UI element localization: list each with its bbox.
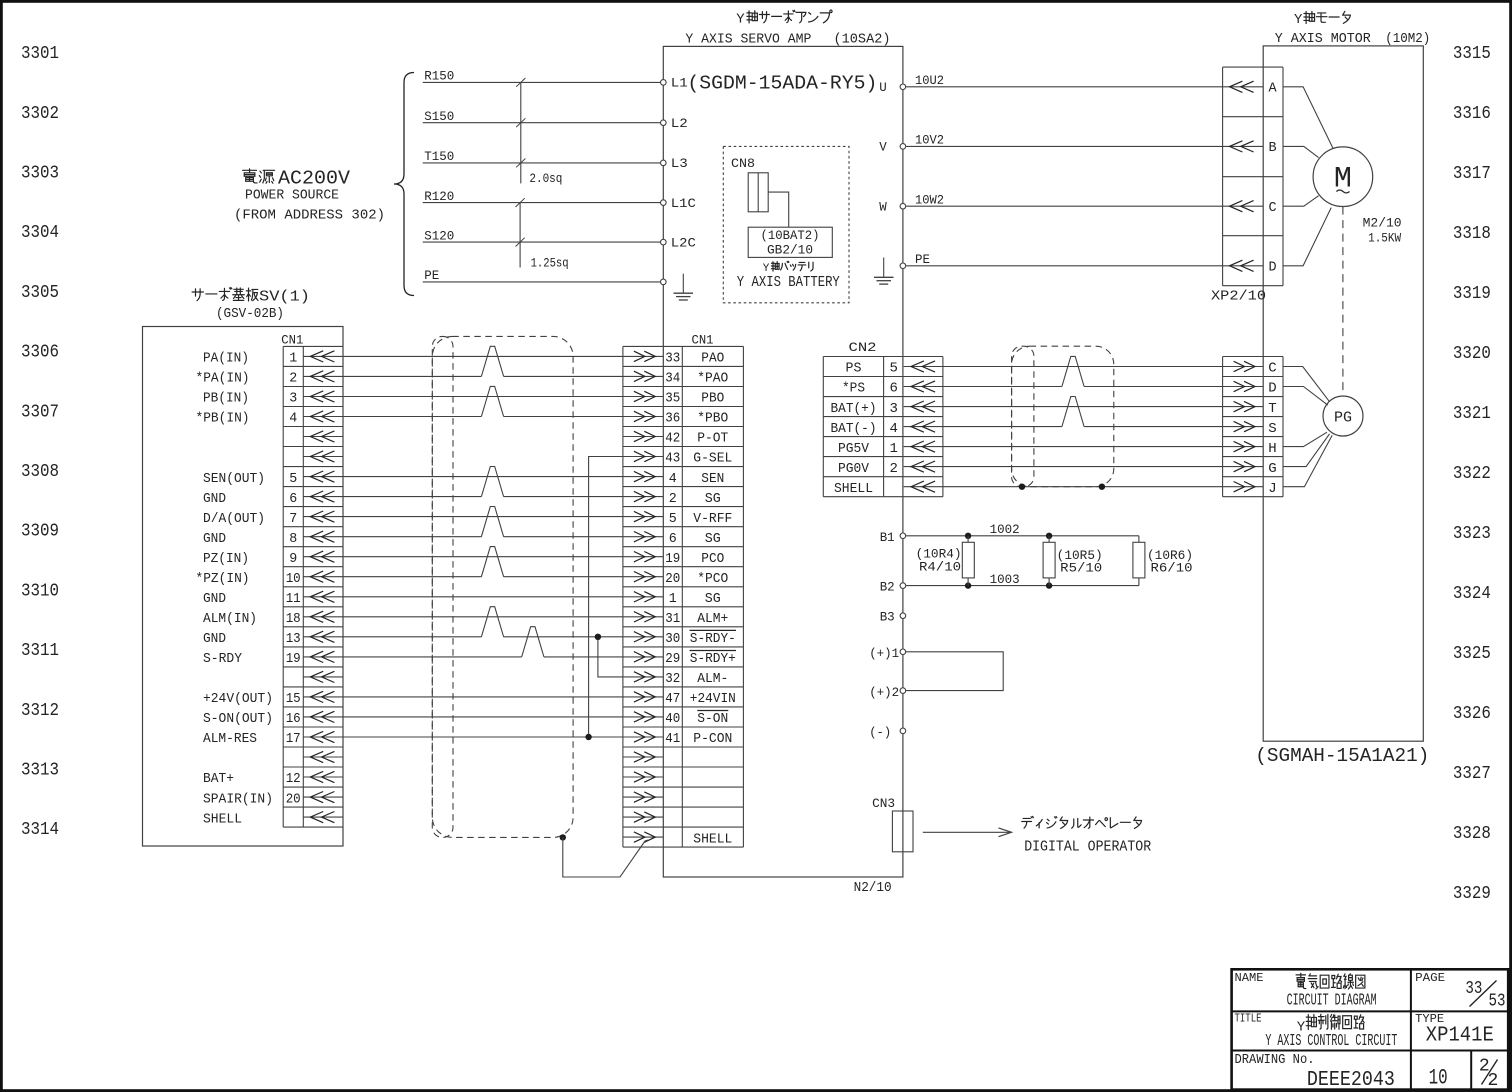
SV(1) CN1 pin 17 ALM-RES <box>203 731 343 747</box>
svg-text:9: 9 <box>289 551 297 567</box>
svg-text:SHELL: SHELL <box>834 481 873 497</box>
svg-text:30: 30 <box>665 631 680 647</box>
svg-text:20: 20 <box>286 791 301 807</box>
XP2/10 pin B <box>1223 141 1277 156</box>
motor M=10M2 outline <box>1263 46 1423 741</box>
svg-text:Y: Y <box>736 12 745 28</box>
terminal (+)1 <box>869 646 906 661</box>
svg-text:S150: S150 <box>424 110 454 124</box>
wire link (+)1 to (+)2 <box>906 652 1003 691</box>
svg-text:Y AXIS CONTROL CIRCUIT: Y AXIS CONTROL CIRCUIT <box>1265 1031 1397 1050</box>
label DIGITAL OPERATOR <box>1022 816 1152 855</box>
wire PE to terminal ground <box>423 269 660 283</box>
wire SV(1) row 13 to amp CN1 <box>343 596 623 598</box>
connector CN1 of SV(1) board <box>281 332 343 827</box>
wire D to motor <box>1283 208 1331 266</box>
svg-text:1.25sq: 1.25sq <box>531 256 569 270</box>
svg-text:PG0V: PG0V <box>838 461 870 477</box>
wire G to PG <box>1283 434 1330 467</box>
title block PAGE 33/53 <box>1415 971 1505 1011</box>
svg-text:2: 2 <box>289 371 297 387</box>
svg-text:C: C <box>1268 361 1276 377</box>
svg-text:P-OT: P-OT <box>697 431 728 447</box>
svg-text:(10M2): (10M2) <box>1385 31 1430 47</box>
svg-text:19: 19 <box>665 551 680 567</box>
svg-text:D: D <box>1268 381 1276 397</box>
svg-text:19: 19 <box>286 651 301 667</box>
svg-text:3307: 3307 <box>21 402 59 422</box>
wire CN2 PG0V to encoder G <box>943 466 1223 468</box>
wire SV(1) row 19 to amp CN1 <box>343 716 623 718</box>
svg-text:P-CON: P-CON <box>693 731 732 747</box>
label Y-axis servo amp (japanese) <box>736 10 832 28</box>
svg-text:31: 31 <box>665 611 680 627</box>
svg-text:3316: 3316 <box>1453 104 1491 124</box>
svg-text:32: 32 <box>665 671 680 687</box>
encoder connector pin J <box>1223 481 1277 497</box>
amp CN1 pin 42 P-OT <box>623 431 728 447</box>
svg-text:47: 47 <box>665 691 680 707</box>
svg-text:4: 4 <box>889 421 897 437</box>
svg-text:PE: PE <box>915 253 930 267</box>
svg-text:SHELL: SHELL <box>693 831 732 847</box>
svg-text:*PB(IN): *PB(IN) <box>196 411 250 427</box>
svg-text:1003: 1003 <box>990 572 1020 587</box>
terminal L2C of servo amp <box>661 239 667 245</box>
SV(1) CN1 pin (nc) spare <box>303 751 343 762</box>
amp CN1 pin 36 *PBO <box>623 411 728 427</box>
svg-text:2: 2 <box>889 461 897 477</box>
wire gauge mark 1.25sq <box>516 198 569 270</box>
svg-text:+24V(OUT): +24V(OUT) <box>203 691 273 707</box>
amp CN1 pin 2 SG <box>623 491 721 507</box>
svg-text:41: 41 <box>665 731 680 747</box>
SV(1) CN1 pin 10 *PZ(IN) <box>196 571 344 587</box>
svg-text:SG: SG <box>705 591 721 607</box>
svg-text:+24VIN: +24VIN <box>690 691 736 707</box>
svg-text:3321: 3321 <box>1453 404 1491 424</box>
terminal L3 of servo amp <box>661 160 667 166</box>
svg-text:S: S <box>1268 421 1276 437</box>
wire PE from PE to motor connector <box>906 253 1223 267</box>
svg-text:T150: T150 <box>424 150 454 164</box>
svg-text:AC200V: AC200V <box>278 168 350 190</box>
SV(1) CN1 pin 20 SPAIR(IN) <box>203 791 343 807</box>
SV(1) CN1 pin 8 GND <box>203 531 343 547</box>
net G-SEL to P-CON link <box>585 457 623 741</box>
svg-text:BAT+: BAT+ <box>203 771 234 787</box>
svg-text:3320: 3320 <box>1453 344 1491 364</box>
terminal (-) <box>869 725 906 740</box>
amp CN2 pin 3 BAT(+) <box>831 401 943 417</box>
connector CN8 (dotted enclosure) <box>723 146 849 302</box>
svg-text:PB(IN): PB(IN) <box>203 391 249 407</box>
svg-text:PG5V: PG5V <box>838 441 870 457</box>
amp CN1 pin 20 *PCO <box>623 571 728 587</box>
svg-text:3313: 3313 <box>21 761 59 781</box>
wire CN2 BAT(+) to encoder T <box>943 406 1223 408</box>
svg-text:L3: L3 <box>671 157 688 171</box>
svg-text:3309: 3309 <box>21 522 59 542</box>
svg-text:5: 5 <box>289 471 297 487</box>
svg-text:3312: 3312 <box>21 701 59 721</box>
svg-text:PG: PG <box>1334 410 1352 427</box>
SV(1) CN1 pin 18 ALM(IN) <box>203 611 343 627</box>
svg-text:R4/10: R4/10 <box>919 561 961 575</box>
amp CN1 pin 5 V-RFF <box>623 511 732 527</box>
wire CN2 SHELL to encoder J <box>943 486 1223 488</box>
label servo board SV(1) <box>192 288 310 322</box>
svg-text:3303: 3303 <box>21 164 59 184</box>
svg-text:*PBO: *PBO <box>697 411 728 427</box>
svg-text:3: 3 <box>289 391 297 407</box>
svg-text:Y: Y <box>1294 12 1303 28</box>
encoder connector pin D <box>1223 381 1277 397</box>
connector XP2/10 on motor <box>1211 67 1283 305</box>
svg-text:CIRCUIT DIAGRAM: CIRCUIT DIAGRAM <box>1287 990 1377 1009</box>
svg-text:G-SEL: G-SEL <box>693 451 732 467</box>
SV(1) CN1 pin 11 GND <box>203 591 343 607</box>
svg-text:3325: 3325 <box>1453 644 1491 664</box>
wire 10V2 from V to motor connector <box>906 134 1223 148</box>
svg-text:B2: B2 <box>880 580 895 595</box>
svg-text:(10BAT2): (10BAT2) <box>761 229 820 243</box>
ground symbol at servo amp PE input <box>682 274 684 294</box>
SV(1) CN1 pin (nc) spare <box>303 671 343 682</box>
svg-text:*PS: *PS <box>842 381 865 397</box>
svg-text:S-RDY: S-RDY <box>203 651 243 667</box>
svg-text:ALM(IN): ALM(IN) <box>203 611 257 627</box>
svg-text:A: A <box>1268 82 1277 97</box>
wire J to PG <box>1283 435 1332 487</box>
XP2/10 pin A <box>1223 81 1278 96</box>
terminal V of servo amp <box>879 141 905 155</box>
svg-text:3302: 3302 <box>21 104 59 124</box>
svg-text:3328: 3328 <box>1453 824 1491 844</box>
svg-text:1: 1 <box>669 591 677 607</box>
svg-text:M2/10: M2/10 <box>1363 217 1402 231</box>
svg-text:B: B <box>1268 141 1276 156</box>
svg-text:4: 4 <box>669 471 677 487</box>
amp CN1 pin 34 *PAO <box>623 371 728 387</box>
encoder connector pin H <box>1223 441 1277 457</box>
svg-text:Y AXIS MOTOR: Y AXIS MOTOR <box>1275 31 1372 47</box>
svg-text:(+)2: (+)2 <box>869 685 899 700</box>
svg-text:PCO: PCO <box>701 551 724 567</box>
SV(1) CN1 pin 2 *PA(IN) <box>196 371 344 387</box>
junction encoder shield right <box>1099 484 1105 490</box>
svg-text:3301: 3301 <box>21 44 59 64</box>
terminal PE of servo amp <box>900 263 906 269</box>
svg-text:3306: 3306 <box>21 343 59 363</box>
battery GB2/10 (10BAT2) <box>748 227 832 257</box>
svg-text:3315: 3315 <box>1453 44 1491 64</box>
svg-text:42: 42 <box>665 431 680 447</box>
svg-text:NAME: NAME <box>1235 971 1264 985</box>
svg-text:S-ON: S-ON <box>697 711 728 727</box>
grid line numbers 3301-3314 (left margin) <box>21 44 59 840</box>
svg-text:V: V <box>879 141 887 155</box>
amp CN1 pin (nc) spare <box>623 752 663 762</box>
terminal L1C of servo amp <box>661 200 667 206</box>
svg-text:11: 11 <box>286 591 301 607</box>
svg-text:3319: 3319 <box>1453 284 1491 304</box>
wire SV(1) row 14 to amp CN1 <box>343 616 623 618</box>
wire 10W2 from W to motor connector <box>906 193 1223 207</box>
wire C to PG <box>1283 367 1330 402</box>
wire SV(1) row 10 to amp CN1 <box>343 536 481 538</box>
resistor R5/10 (10R5) <box>1043 536 1103 586</box>
svg-text:XP141E: XP141E <box>1426 1025 1494 1048</box>
encoder connector pin C <box>1223 361 1277 377</box>
wire S150 to terminal L2 <box>423 110 660 124</box>
resistor R6/10 (10R6) <box>1133 536 1193 586</box>
svg-text:3323: 3323 <box>1453 524 1491 544</box>
amp CN1 pin 19 PCO <box>623 551 724 567</box>
CN8 plug symbol <box>748 173 768 212</box>
wire CN2 PS to encoder C <box>943 366 1223 368</box>
svg-text:20: 20 <box>665 571 680 587</box>
junction B1-R4 <box>965 533 971 539</box>
title block TITLE: Y AXIS CONTROL CIRCUIT <box>1235 1012 1398 1050</box>
svg-text:*PA(IN): *PA(IN) <box>196 371 250 387</box>
svg-text:*PAO: *PAO <box>697 371 728 387</box>
svg-text:2.0sq: 2.0sq <box>529 172 562 186</box>
wire SV(1) row 7 to amp CN1 <box>343 476 623 478</box>
amp CN1 pin 30 S-RDY- <box>623 630 736 647</box>
svg-text:POWER SOURCE: POWER SOURCE <box>245 187 339 203</box>
svg-text:SG: SG <box>705 531 721 547</box>
svg-text:3324: 3324 <box>1453 584 1491 604</box>
SV(1) CN1 pin 9 PZ(IN) <box>203 551 343 567</box>
grid line numbers 3315-3329 (right margin) <box>1453 44 1491 904</box>
wire SV(1) row 1 to amp CN1 <box>343 355 623 357</box>
terminal E of servo amp <box>661 279 667 285</box>
svg-text:PA(IN): PA(IN) <box>203 351 249 367</box>
svg-text:3318: 3318 <box>1453 224 1491 244</box>
svg-text:(10R4): (10R4) <box>916 548 962 562</box>
XP2/10 pin D <box>1223 260 1277 275</box>
svg-text:G: G <box>1268 461 1276 477</box>
svg-text:1: 1 <box>289 351 297 367</box>
SV(1) CN1 pin (nc) spare <box>303 431 343 442</box>
amp CN1 pin (nc) spare <box>623 812 663 822</box>
SV(1) CN1 pin (nc) SHELL <box>203 811 343 827</box>
wire SV(1) row 18 to amp CN1 <box>343 696 623 698</box>
svg-text:BAT(+): BAT(+) <box>831 401 877 417</box>
wire S120 to terminal L2C <box>423 229 660 243</box>
svg-text:U: U <box>879 81 887 95</box>
svg-text:3310: 3310 <box>21 581 59 601</box>
svg-text:(SGDM-15ADA-RY5): (SGDM-15ADA-RY5) <box>687 72 877 94</box>
amp CN1 pin (nc) spare <box>623 792 663 802</box>
terminal L2 of servo amp <box>661 120 667 126</box>
svg-text:3311: 3311 <box>21 641 59 661</box>
servo amplifier U=10SA2 outline <box>663 46 903 877</box>
svg-text:6: 6 <box>669 531 677 547</box>
svg-text:10: 10 <box>1429 1065 1448 1090</box>
svg-text:PAGE: PAGE <box>1415 971 1445 985</box>
wire SV(1) row 9 to amp CN1 <box>343 516 623 518</box>
net 1003 wire from B2 <box>906 572 1139 587</box>
svg-text:L1C: L1C <box>671 197 696 211</box>
svg-text:8: 8 <box>289 531 297 547</box>
svg-text:7: 7 <box>289 511 297 527</box>
svg-text:1002: 1002 <box>990 522 1020 537</box>
svg-text:PS: PS <box>846 361 862 377</box>
svg-text:R6/10: R6/10 <box>1151 562 1193 576</box>
svg-text:43: 43 <box>665 451 680 467</box>
wire A to motor <box>1283 87 1333 148</box>
ground symbol at servo amp PE output <box>883 258 885 278</box>
svg-text:2: 2 <box>669 491 677 507</box>
svg-text:D: D <box>1268 261 1276 276</box>
label Y AXIS MOTOR (10M2) <box>1275 31 1431 47</box>
encoder connector pin S <box>1223 421 1277 437</box>
svg-text:CN2: CN2 <box>849 340 877 355</box>
label POWER SOURCE AC200V <box>234 168 385 224</box>
svg-text:Y AXIS SERVO AMP: Y AXIS SERVO AMP <box>685 31 811 47</box>
wire T150 to terminal L3 <box>423 150 660 164</box>
SV(1) CN1 pin 1 PA(IN) <box>203 351 343 367</box>
amp CN1 pin (nc) spare <box>623 772 663 782</box>
amp CN1 pin 31 ALM+ <box>623 611 728 627</box>
amp CN1 pin (nc) SHELL <box>623 831 732 847</box>
svg-text:DEEE2043: DEEE2043 <box>1307 1068 1395 1092</box>
motor encoder connector <box>1223 357 1283 497</box>
resistor R4/10 (10R4) <box>916 536 975 586</box>
wire R120 to terminal L1C <box>423 190 660 204</box>
svg-text:(10SA2): (10SA2) <box>834 31 891 47</box>
amp CN2 pin 4 BAT(-) <box>831 421 943 437</box>
junction encoder shield left <box>1019 484 1025 490</box>
svg-text:SPAIR(IN): SPAIR(IN) <box>203 791 273 807</box>
svg-text:3: 3 <box>889 401 897 417</box>
amp CN1 pin 1 SG <box>623 591 721 607</box>
title block DRAWING No. DEEE2043 10 2/2 <box>1235 1053 1499 1092</box>
terminal L1 of servo amp <box>661 80 667 86</box>
title block <box>1232 969 1509 1089</box>
junction B2-R5 <box>1046 582 1052 588</box>
amp CN1 pin 43 G-SEL <box>623 451 732 467</box>
svg-text:6: 6 <box>889 381 897 397</box>
amp CN2 pin (shell) SHELL <box>834 481 943 497</box>
svg-text:PE: PE <box>424 269 439 283</box>
svg-text:CN3: CN3 <box>872 796 895 811</box>
svg-text:XP2/10: XP2/10 <box>1211 290 1266 305</box>
svg-text:R150: R150 <box>424 70 454 84</box>
twisted pair symbols on encoder cable <box>1062 356 1084 426</box>
SV(1) CN1 pin 15 +24V(OUT) <box>203 691 343 707</box>
svg-text:S120: S120 <box>424 229 454 243</box>
svg-text:3314: 3314 <box>21 820 59 840</box>
amp CN1 pin 33 PAO <box>623 351 724 367</box>
svg-text:*PZ(IN): *PZ(IN) <box>196 571 250 587</box>
SV(1) CN1 pin 3 PB(IN) <box>203 391 343 407</box>
label Y-axis motor (japanese) <box>1294 11 1350 28</box>
SV(1) CN1 pin 6 GND <box>203 491 343 507</box>
connector CN1 of servo amp <box>623 332 744 847</box>
svg-text:10V2: 10V2 <box>915 134 944 148</box>
wire SV(1) row 16 to amp CN1 <box>343 656 522 658</box>
svg-text:J: J <box>1268 481 1276 497</box>
wire H to PG <box>1283 432 1327 446</box>
svg-text:V-RFF: V-RFF <box>693 511 732 527</box>
svg-text:*PCO: *PCO <box>697 571 728 587</box>
terminal B1 <box>880 530 906 545</box>
amp CN1 pin 40 S-ON <box>623 711 728 728</box>
svg-text:L2C: L2C <box>671 236 696 250</box>
motor M 1.5KW <box>1313 147 1373 207</box>
svg-text:3304: 3304 <box>21 223 59 243</box>
svg-text:SG: SG <box>705 491 721 507</box>
svg-text:S-ON(OUT): S-ON(OUT) <box>203 711 273 727</box>
svg-text:6: 6 <box>289 491 297 507</box>
svg-text:L1: L1 <box>671 77 688 91</box>
amp CN2 pin 6 *PS <box>842 381 943 397</box>
svg-text:18: 18 <box>286 611 301 627</box>
svg-text:2: 2 <box>1488 1071 1499 1091</box>
svg-text:3322: 3322 <box>1453 464 1491 484</box>
label Y AXIS SERVO AMP (10SA2) <box>685 31 890 47</box>
wire CN2 *PS to encoder D <box>943 386 1062 388</box>
svg-text:29: 29 <box>665 651 680 667</box>
junction B2-R4 <box>965 582 971 588</box>
SV(1) CN1 pin 16 S-ON(OUT) <box>203 711 343 727</box>
svg-text:DIGITAL OPERATOR: DIGITAL OPERATOR <box>1024 839 1151 855</box>
svg-text:R120: R120 <box>424 190 454 204</box>
svg-text:10U2: 10U2 <box>915 74 944 88</box>
svg-text:10W2: 10W2 <box>915 193 944 207</box>
svg-text:SHELL: SHELL <box>203 811 242 827</box>
power source brace <box>394 73 414 296</box>
svg-text:3327: 3327 <box>1453 764 1491 784</box>
svg-text:15: 15 <box>286 691 301 707</box>
svg-text:16: 16 <box>286 711 301 727</box>
twisted pair symbols on CN1 cable <box>481 346 544 657</box>
svg-text:(-): (-) <box>869 725 891 740</box>
SV(1) CN1 pin 5 SEN(OUT) <box>203 471 343 487</box>
svg-text:W: W <box>879 201 887 215</box>
junction B1-R5 <box>1046 533 1052 539</box>
cable shield (dashed) of CN1 cable <box>432 336 573 837</box>
svg-text:GND: GND <box>203 491 226 507</box>
amp CN2 pin 5 PS <box>846 361 943 377</box>
svg-text:1.5KW: 1.5KW <box>1368 231 1401 245</box>
svg-text:TITLE: TITLE <box>1235 1012 1262 1026</box>
svg-text:R5/10: R5/10 <box>1060 562 1102 576</box>
svg-text:35: 35 <box>665 391 680 407</box>
svg-text:SEN: SEN <box>701 471 724 487</box>
amp CN2 pin 2 PG0V <box>838 461 943 477</box>
wire CN2 PG5V to encoder H <box>943 446 1223 448</box>
amp CN1 pin 32 ALM- <box>623 671 728 687</box>
svg-text:5: 5 <box>889 361 897 377</box>
svg-text:S-RDY+: S-RDY+ <box>690 651 736 667</box>
wire CN3 to digital operator <box>923 828 1012 837</box>
svg-text:5: 5 <box>669 511 677 527</box>
svg-text:H: H <box>1268 441 1276 457</box>
svg-text:(SGMAH-15A1A21): (SGMAH-15A1A21) <box>1255 745 1429 767</box>
svg-text:ALM-RES: ALM-RES <box>203 731 257 747</box>
svg-text:40: 40 <box>665 711 680 727</box>
wire B to motor <box>1283 146 1319 157</box>
wire CN8 to battery GB2/10 <box>768 192 789 227</box>
connector CN2 of servo amp <box>823 340 943 497</box>
wire SV(1) row 8 to amp CN1 <box>343 496 481 498</box>
svg-text:13: 13 <box>286 631 301 647</box>
svg-text:3317: 3317 <box>1453 164 1491 184</box>
